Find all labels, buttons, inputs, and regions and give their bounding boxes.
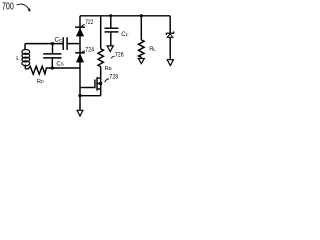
svg-text:S: S xyxy=(61,62,64,67)
svg-text:F: F xyxy=(126,32,129,37)
svg-text:700: 700 xyxy=(2,2,14,13)
svg-text:L: L xyxy=(153,47,156,52)
svg-text:726: 726 xyxy=(115,53,124,59)
svg-text:728: 728 xyxy=(109,75,118,81)
svg-text:724: 724 xyxy=(85,47,94,53)
svg-text:B: B xyxy=(109,66,112,71)
svg-text:722: 722 xyxy=(85,20,94,26)
svg-text:P: P xyxy=(41,79,44,84)
svg-text:C: C xyxy=(59,38,63,43)
svg-text:L: L xyxy=(16,56,20,62)
